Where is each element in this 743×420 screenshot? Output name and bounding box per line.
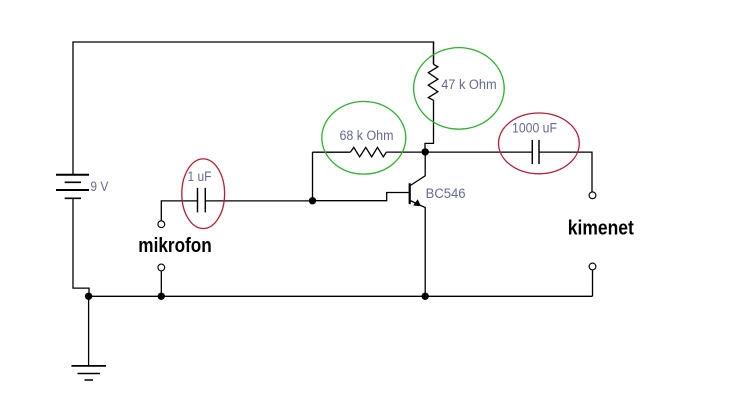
- svg-text:mikrofon: mikrofon: [138, 234, 212, 257]
- svg-text:BC546: BC546: [426, 186, 466, 201]
- svg-text:1 uF: 1 uF: [188, 169, 212, 184]
- svg-text:9 V: 9 V: [90, 179, 108, 194]
- svg-text:47 k Ohm: 47 k Ohm: [441, 77, 497, 92]
- svg-text:1000 uF: 1000 uF: [512, 121, 557, 136]
- svg-text:68 k Ohm: 68 k Ohm: [340, 128, 394, 143]
- svg-text:kimenet: kimenet: [568, 217, 634, 240]
